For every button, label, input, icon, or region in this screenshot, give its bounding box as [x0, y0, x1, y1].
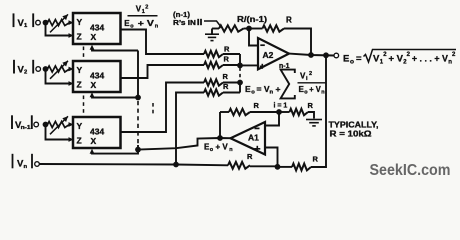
svg-text:n: n [448, 59, 452, 65]
svg-text:+ V: + V [216, 143, 229, 152]
svg-text:X: X [91, 32, 97, 42]
svg-text:= V: = V [257, 84, 270, 94]
svg-text:434: 434 [90, 127, 104, 137]
svg-text:E: E [245, 84, 251, 94]
svg-text:X: X [91, 136, 97, 146]
node A1 output [217, 135, 223, 141]
node E0+Vn / X bus junction [135, 147, 141, 153]
input terminal Vn [12, 154, 14, 169]
ground (top) [211, 29, 213, 35]
svg-text:o: o [350, 58, 354, 65]
svg-text:n: n [270, 90, 274, 96]
continuation dash output routes [152, 103, 154, 117]
svg-text:+ V: + V [138, 19, 155, 28]
wire to A1 - input [265, 112, 279, 126]
svg-text:2: 2 [309, 71, 312, 77]
svg-text:R: R [224, 45, 230, 54]
node A2 inverting [246, 26, 252, 32]
wire pot to Y [69, 68, 72, 70]
svg-text:R = 10kΩ: R = 10kΩ [330, 129, 372, 139]
svg-text:o: o [251, 90, 255, 96]
potentiometer (scale trim) for V3 [48, 122, 70, 128]
svg-text:Y: Y [77, 65, 83, 75]
svg-text:R: R [313, 155, 319, 164]
wire U3 output to R row3 [121, 83, 205, 133]
svg-text:+: + [276, 84, 281, 94]
resistor R (A2 feedback) [249, 28, 263, 30]
svg-text:+ V: + V [309, 85, 321, 94]
wire V1 to Z input [46, 23, 70, 36]
svg-text:+ V: + V [389, 54, 404, 65]
svg-text:R: R [247, 152, 253, 161]
svg-text:i = 1: i = 1 [274, 103, 288, 110]
svg-text:R: R [224, 55, 230, 64]
node X bus / U2 feed [135, 95, 141, 101]
wire bus to A2 + [240, 64, 258, 66]
svg-text:R: R [223, 72, 229, 81]
wire U3 X feed [92, 150, 138, 154]
svg-text:2: 2 [145, 5, 148, 11]
wire U2 X feed [92, 95, 138, 98]
output terminal Eo [334, 53, 339, 58]
svg-text:R: R [254, 101, 260, 110]
svg-text:X: X [91, 80, 97, 90]
resistor R row4 [204, 89, 223, 95]
wire feedback to output [284, 29, 311, 56]
resistor R (to ground) [279, 111, 290, 113]
node output/rail [323, 52, 329, 58]
wire to A1 + input [265, 148, 278, 167]
wire A2 output [289, 54, 334, 56]
multiplier/divider U3 (434) [73, 117, 121, 148]
node bus row3 [237, 80, 243, 86]
wire X bus continuation (dashed) [137, 101, 139, 145]
wire X bus lower [137, 145, 139, 150]
wire V2 to Z input [46, 69, 70, 84]
wire X bus upper [137, 51, 139, 98]
svg-text:n-1: n-1 [279, 63, 290, 70]
svg-text:434: 434 [90, 71, 104, 81]
svg-text:Y: Y [77, 121, 83, 131]
resistor R (A1 feedback) [220, 111, 229, 113]
resistor R row3 [204, 79, 223, 85]
wire pot to Y [69, 124, 72, 126]
node V2 input junction [43, 66, 49, 72]
wire U1 X feed [92, 50, 138, 51]
svg-text:434: 434 [90, 23, 104, 33]
svg-text:R: R [308, 101, 314, 110]
resistor R (Eo to A1+) [278, 166, 293, 168]
node V3 input junction [43, 122, 49, 128]
svg-text:E: E [343, 54, 349, 65]
continuation dash between U1/U2 [83, 47, 85, 59]
input terminal V2 [13, 60, 15, 74]
node V1 input junction [43, 20, 49, 26]
wire bus dashed continuation [239, 68, 241, 81]
wire summing bus [239, 54, 241, 65]
wire pot to Y [69, 22, 72, 24]
svg-text:n-1: n-1 [21, 125, 31, 131]
svg-text:Z: Z [77, 32, 82, 42]
svg-text:Y: Y [77, 17, 83, 27]
svg-text:Z: Z [77, 80, 82, 90]
resistor R/(n-1) [212, 28, 219, 30]
wire A1 output / E0+Vn node [138, 138, 231, 150]
wire Vn to R row4 [176, 93, 204, 165]
op-amp A1 [231, 122, 266, 155]
svg-text:Z: Z [77, 136, 82, 146]
potentiometer (scale trim) for V2 [48, 66, 70, 72]
wire U1 output to R row1 [121, 30, 205, 55]
wire Eo rail [311, 55, 326, 167]
node feedback/output [308, 52, 314, 58]
ground (A1 network) [306, 119, 322, 121]
multiplier/divider U1 (434) [73, 13, 121, 44]
svg-text:R/(n-1): R/(n-1) [237, 15, 267, 24]
op-amp A2 [258, 38, 289, 69]
svg-text:n: n [24, 164, 28, 170]
input terminal V1 [13, 13, 15, 27]
svg-text:=: = [356, 54, 362, 65]
potentiometer (scale trim) for V1 [48, 20, 70, 26]
svg-text:R’s IN: R’s IN [173, 18, 196, 27]
multiplier/divider U2 (434) [73, 61, 121, 92]
resistor R row1 [204, 51, 223, 57]
node A1 - junction [276, 109, 282, 115]
input terminal V3 [11, 115, 13, 129]
wire V3 to Z input [46, 125, 70, 140]
resistor R (Vn to A1+) [228, 162, 250, 169]
node bus row2 [237, 63, 243, 69]
svg-text:R: R [286, 16, 292, 25]
sigma symbol [281, 70, 295, 99]
node Vn / row4 riser junction [173, 162, 179, 168]
wire U2 output to R row2 [121, 65, 205, 78]
svg-text:A2: A2 [263, 50, 274, 60]
wire Vn row [39, 164, 228, 165]
wire A1 feedback riser [219, 112, 221, 138]
pointer line [204, 21, 222, 28]
svg-text:R: R [223, 82, 229, 91]
node A1 + junction [275, 164, 281, 170]
svg-text:+ . . . + V: + . . . + V [412, 54, 449, 65]
resistor R row2 [204, 62, 223, 68]
continuation dash between U2/U3 [83, 96, 85, 115]
svg-text:SeekIC.com: SeekIC.com [370, 162, 451, 179]
svg-text:A1: A1 [248, 133, 259, 143]
svg-text:2: 2 [24, 70, 27, 76]
wire node to A2 - input [249, 29, 258, 46]
